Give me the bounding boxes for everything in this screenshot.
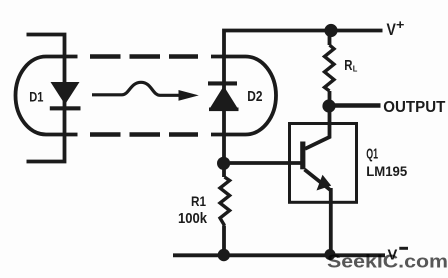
svg-text:100k: 100k	[178, 210, 208, 227]
svg-text:R1: R1	[191, 193, 206, 209]
svg-text:Q1: Q1	[366, 146, 378, 162]
svg-text:OUTPUT: OUTPUT	[383, 99, 445, 116]
svg-text:R: R	[344, 58, 352, 74]
svg-text:SeekIC.com: SeekIC.com	[327, 251, 448, 272]
svg-text:L: L	[353, 63, 358, 73]
svg-text:LM195: LM195	[366, 163, 407, 179]
svg-text:D1: D1	[29, 89, 43, 105]
svg-text:D2: D2	[247, 89, 262, 105]
svg-text:V: V	[387, 21, 396, 39]
svg-text:+: +	[396, 18, 404, 32]
